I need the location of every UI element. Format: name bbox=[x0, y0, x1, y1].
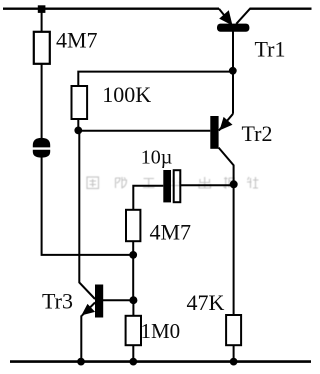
watermark text row (faint) bbox=[87, 177, 259, 189]
capacitor C1 top plate bbox=[33, 138, 50, 148]
transistor Tr2 emitter wire (diagonal with arrow) bbox=[219, 114, 233, 131]
wire: node down to 1M0 bbox=[132, 300, 134, 316]
node: junction dot Tr3 base / 1M0 bbox=[129, 296, 137, 304]
wire: long vertical down to Tr3 collector bbox=[79, 130, 95, 299]
svg-text:Tr1: Tr1 bbox=[255, 37, 286, 62]
capacitor C1 bottom plate bbox=[33, 150, 50, 158]
wire: Tr2 collector down to 47K bbox=[233, 181, 235, 315]
transistor Tr3 base lead to right bbox=[103, 299, 133, 301]
wire: Tr1 base node down to Tr2 emitter bbox=[232, 68, 234, 114]
wire: capacitor down and corner right at bottom bbox=[42, 157, 134, 255]
transistor Tr1 emitter arrow bbox=[219, 10, 232, 25]
transistor Tr1 base bar bbox=[217, 24, 249, 32]
node: junction dot on bottom-left horizontal wire bbox=[129, 251, 137, 259]
wire: top rail to R 4M7 bbox=[41, 9, 43, 32]
wire: Tr3 emitter down to bottom rail bbox=[80, 315, 82, 361]
wire: Tr2 base wire bbox=[78, 130, 210, 132]
capacitor 10u right plate (hollow) bbox=[174, 170, 181, 202]
wire: 4M7 mid bottom lead bbox=[132, 241, 134, 298]
transistor Tr1 emitter wire (diagonal with arrow) bbox=[219, 9, 231, 24]
transistor Tr1 collector wire (diagonal) bbox=[236, 9, 250, 24]
svg-text:4M7: 4M7 bbox=[56, 28, 98, 53]
node: junction dot top-left bbox=[38, 5, 46, 13]
node: junction dot 1M0 at rail bbox=[129, 358, 137, 366]
node: junction dot below 100K bbox=[74, 126, 82, 134]
svg-text:Tr2: Tr2 bbox=[242, 121, 273, 146]
transistor Tr1 base lead bbox=[232, 31, 234, 68]
svg-text:4M7: 4M7 bbox=[150, 220, 192, 245]
svg-text:47K: 47K bbox=[187, 290, 225, 315]
wire: 4M7 to capacitor bbox=[41, 64, 43, 139]
node: junction dot right of 10u bbox=[230, 180, 238, 188]
wire: cap 10u right wire to node bbox=[181, 184, 234, 186]
wire: 1M0 bottom lead bbox=[132, 345, 134, 361]
svg-text:10µ: 10µ bbox=[141, 146, 173, 168]
node: junction dot 47K at rail bbox=[230, 358, 238, 366]
top rail left segment bbox=[3, 8, 219, 10]
transistor Tr2 base bar bbox=[210, 116, 218, 149]
wire: cap 10u left wire with corner down to 4M7 mid bbox=[133, 186, 163, 210]
wire: 47K bottom lead bbox=[233, 345, 235, 361]
transistor Tr3 emitter arrow bbox=[81, 304, 95, 316]
svg-text:Tr3: Tr3 bbox=[42, 288, 73, 313]
transistor Tr3 base bar bbox=[95, 285, 103, 318]
bottom rail bbox=[10, 360, 311, 363]
node: junction dot at Tr1 base / 100K bbox=[229, 67, 237, 75]
resistor 4M7 (middle) bbox=[126, 210, 140, 241]
transistor Tr2 collector wire (diagonal) bbox=[219, 148, 234, 181]
transistor Tr2 emitter arrow bbox=[220, 117, 233, 130]
transistor Tr3 emitter wire (diagonal with arrow) bbox=[82, 303, 95, 316]
resistor 4M7 (top left) bbox=[34, 32, 50, 64]
resistor 100K bbox=[72, 86, 88, 119]
svg-text:1M0: 1M0 bbox=[141, 319, 181, 343]
resistor 47K bbox=[226, 315, 241, 345]
wire: 100K bottom lead bbox=[77, 119, 79, 130]
svg-text:100K: 100K bbox=[102, 82, 151, 107]
resistor 1M0 bbox=[126, 316, 141, 345]
wire: 100K top lead up and right to Tr1 base node bbox=[78, 72, 233, 87]
capacitor 10u left plate (solid) bbox=[163, 170, 171, 202]
node: junction dot Tr3 emitter at rail bbox=[77, 358, 85, 366]
top rail right segment bbox=[250, 8, 312, 10]
